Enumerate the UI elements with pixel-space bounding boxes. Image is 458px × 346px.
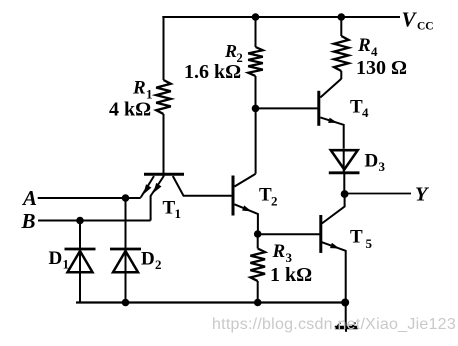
transistor T2 emitter: [235, 204, 258, 234]
wire R2 to node: [255, 76, 257, 108]
node Y junction: [341, 190, 349, 198]
svg-text:3: 3: [379, 159, 386, 174]
transistor T1 collector: [173, 176, 233, 196]
wire input B: [38, 220, 151, 222]
node B-line D1 junction: [76, 217, 84, 225]
wire node to T2 collector: [255, 108, 257, 174]
svg-text:1.6 kΩ: 1.6 kΩ: [184, 61, 241, 83]
svg-text:R: R: [224, 41, 237, 61]
svg-text:D: D: [365, 151, 379, 172]
transistor T4 base bar: [317, 91, 320, 126]
wire R3 to rail: [257, 281, 259, 303]
svg-text:2: 2: [271, 194, 278, 209]
node T2 emitter junction: [254, 230, 262, 238]
node R2 top junction: [252, 13, 260, 21]
svg-text:R: R: [357, 35, 371, 56]
node T5 rail junction: [341, 299, 349, 307]
transistor T2 collector: [235, 174, 256, 187]
transistor T1 base bar: [144, 173, 184, 176]
wire Vcc rail to R1: [163, 16, 165, 80]
svg-text:3: 3: [286, 250, 293, 265]
resistor R4: [334, 36, 349, 71]
wire D3 to Y node: [343, 173, 345, 194]
transistor T4 emitter: [320, 117, 343, 148]
wire R1 to T1 base: [163, 114, 165, 177]
svg-text:CC: CC: [417, 20, 434, 32]
svg-text:4: 4: [362, 105, 369, 120]
transistor T1 emitter 1: [141, 176, 154, 198]
node D2 rail junction: [122, 299, 130, 307]
svg-text:T: T: [350, 227, 363, 248]
wire T2 node to T5 base: [258, 233, 321, 235]
ground: [345, 303, 347, 328]
svg-text:R: R: [132, 78, 146, 99]
wire B-line through D1 to ground rail: [79, 221, 81, 303]
svg-text:5: 5: [366, 236, 373, 251]
svg-text:https://blog.csdn.net/Xiao_Jie: https://blog.csdn.net/Xiao_Jie123: [212, 316, 456, 333]
svg-text:V: V: [402, 8, 418, 32]
resistor R3: [250, 249, 265, 282]
node R3 rail junction: [254, 299, 262, 307]
node R2 bottom junction: [252, 105, 260, 113]
transistor T2 base bar: [232, 176, 235, 216]
wire R2 node to T4 base: [256, 107, 319, 109]
transistor T5 base bar: [319, 215, 322, 253]
svg-text:R: R: [272, 241, 286, 262]
wire Vcc top rail: [162, 16, 400, 18]
wire Vcc rail to R4: [340, 17, 342, 36]
wire A-line through D2 to ground rail: [125, 198, 127, 303]
svg-text:D: D: [141, 249, 155, 270]
node A-line D2 junction: [122, 194, 130, 202]
transistor T1 emitter 2: [151, 176, 164, 221]
resistor R2: [248, 47, 263, 76]
svg-text:2: 2: [155, 257, 162, 272]
transistor T4 collector: [320, 79, 341, 98]
svg-text:D: D: [49, 248, 63, 269]
wire node to R3: [257, 234, 259, 249]
diode D1: [65, 248, 96, 251]
node R4 top junction: [338, 13, 346, 21]
wire input A: [38, 197, 141, 199]
svg-text:B: B: [21, 209, 36, 233]
svg-text:1: 1: [63, 257, 70, 272]
svg-text:130 Ω: 130 Ω: [356, 57, 407, 79]
diode D2: [110, 248, 141, 251]
transistor T5 emitter: [322, 242, 346, 302]
wire output Y: [345, 193, 411, 195]
diode D3: [331, 150, 358, 169]
svg-text:1: 1: [175, 206, 182, 221]
svg-text:A: A: [21, 186, 37, 210]
svg-text:1 kΩ: 1 kΩ: [270, 264, 312, 286]
transistor T5 collector: [322, 194, 345, 224]
svg-text:4 kΩ: 4 kΩ: [109, 99, 151, 121]
wire R4 to T4 collector: [340, 71, 342, 79]
resistor R1: [156, 80, 171, 114]
wire bottom rail: [76, 301, 346, 303]
wire Vcc rail to R2: [255, 17, 257, 47]
